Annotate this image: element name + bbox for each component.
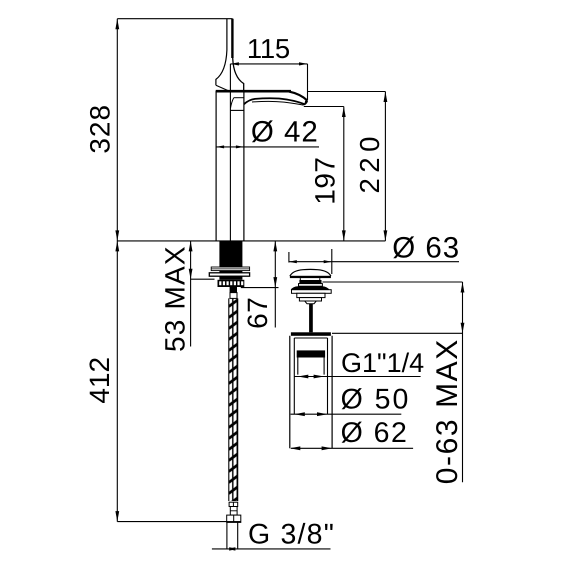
- drain ring 2: [299, 284, 323, 287]
- drain ring black: [299, 280, 321, 284]
- arrow dia62 right: [322, 446, 333, 450]
- spout channel left curve: [231, 98, 234, 109]
- svg-text:G 3/8": G 3/8": [248, 519, 335, 551]
- svg-text:328: 328: [85, 104, 116, 154]
- arrow dia50 left: [294, 412, 305, 416]
- svg-text:53 MAX: 53 MAX: [159, 245, 190, 352]
- spout top curve to tip: [289, 92, 307, 101]
- drain lock nut: [297, 293, 325, 297]
- dimension line 220 vertical: [384, 92, 386, 241]
- hose end nut: [227, 515, 241, 522]
- extension line bottom (412): [117, 521, 241, 523]
- arrow 0-63 top up: [461, 282, 465, 293]
- arrow 53max top up: [189, 241, 193, 252]
- arrow 220 bottom down: [384, 230, 388, 241]
- arrow 328 top up: [115, 19, 119, 30]
- dimension line diameter 63: [289, 261, 459, 263]
- arrow dia42 left: [216, 145, 224, 148]
- drain thread band: [297, 350, 325, 357]
- extension line diameter 63 left: [288, 252, 290, 263]
- leader line diameter 50: [291, 413, 402, 415]
- extension line 0-63 MAX top: [323, 281, 463, 283]
- svg-text:197: 197: [310, 156, 341, 204]
- spout beak tip: [303, 99, 308, 105]
- svg-text:Ø 50: Ø 50: [341, 384, 411, 416]
- leader line G 3/8: [212, 548, 331, 550]
- arrow 115 left: [230, 62, 239, 65]
- arrow 53max bottom down: [189, 269, 193, 280]
- spout channel top line: [234, 97, 244, 99]
- spout lip line: [252, 101, 304, 105]
- spout channel pocket bottom: [230, 109, 244, 111]
- drain cap rim: [290, 276, 331, 278]
- dimension line 0-63 MAX vertical: [462, 282, 464, 482]
- spout top bar: [216, 90, 291, 93]
- counter top line: [117, 240, 385, 242]
- arrow 197 bottom down: [342, 230, 346, 241]
- arrow 328 bottom down: [115, 230, 119, 241]
- arrow 197 top up: [342, 107, 346, 118]
- drain cap dome: [290, 269, 331, 276]
- extension line top (328): [117, 18, 232, 20]
- svg-text:115: 115: [247, 33, 290, 64]
- drain taper: [305, 301, 317, 304]
- braided hose: [227, 298, 241, 549]
- arrow 67 top up: [273, 241, 277, 252]
- arrow G38 right: [229, 547, 238, 550]
- svg-text:0-63 MAX: 0-63 MAX: [431, 338, 464, 484]
- arrows: [115, 19, 464, 551]
- arrow 115 right: [299, 62, 308, 65]
- svg-text:Ø 63: Ø 63: [392, 231, 460, 264]
- arrow dia42 right: [236, 145, 244, 148]
- extension line diameter 63 right: [331, 249, 333, 274]
- dimension line diameter 42: [216, 146, 319, 148]
- extension line 220 top: [308, 91, 386, 93]
- svg-text:67: 67: [242, 297, 273, 329]
- dimension line 197 vertical: [343, 107, 345, 241]
- arrow dia63 left: [289, 260, 297, 263]
- hose fitting lower: [230, 293, 237, 299]
- drain thread tube: [298, 358, 324, 375]
- drain ring 3: [299, 298, 321, 301]
- svg-text:Ø 42: Ø 42: [251, 115, 319, 148]
- drain body inner walls: [294, 338, 327, 414]
- spout underside: [244, 98, 305, 104]
- pop-up waste drain assembly: [290, 269, 332, 448]
- extension line 115 left / faucet centerline: [229, 64, 231, 241]
- faucet handle lever: [216, 19, 244, 92]
- svg-text:G1"1/4: G1"1/4: [341, 348, 424, 378]
- drain basin washer: [292, 290, 332, 294]
- arrow 412 top up: [115, 241, 119, 252]
- dimension line 53 MAX vertical: [190, 241, 192, 347]
- drain neck: [300, 278, 320, 280]
- extension line 53 MAX bottom: [191, 278, 215, 280]
- hose end neck: [230, 507, 237, 516]
- hose end collar: [229, 502, 238, 506]
- drain body outer: [290, 336, 332, 449]
- arrow G38 left: [227, 547, 236, 550]
- threaded shank below counter: [209, 241, 249, 299]
- dimension texts: [84, 33, 464, 550]
- svg-text:Ø 62: Ø 62: [341, 417, 409, 449]
- dimension line 67 vertical: [274, 241, 276, 328]
- mounting nut: [218, 280, 245, 287]
- arrow dia62 left: [290, 446, 301, 450]
- dimension line 328/412 vertical: [116, 19, 118, 522]
- arrow G1 1/4 left: [298, 375, 309, 379]
- body left edge: [215, 91, 217, 241]
- faucet body: [216, 91, 244, 241]
- extension line 197 top: [304, 106, 344, 108]
- drain rod: [309, 304, 313, 333]
- arrow 67 bottom down: [273, 277, 277, 288]
- washer plate 1: [211, 267, 249, 271]
- G3/8 tube: [226, 522, 228, 549]
- leader line G1 1/4: [294, 376, 421, 378]
- drain flange: [291, 286, 330, 290]
- arrow G1 1/4 right: [314, 375, 325, 379]
- drain body inner top: [294, 337, 327, 339]
- arrow dia63 right: [324, 260, 332, 263]
- svg-text:412: 412: [84, 357, 115, 404]
- extension line 115 right: [307, 64, 309, 100]
- leader line diameter 62 / body bottom: [291, 447, 413, 449]
- dimension line 115 horizontal: [230, 63, 307, 65]
- svg-text:220: 220: [354, 131, 385, 193]
- arrow 0-63 bottom down: [461, 323, 465, 334]
- arrow 220 top up: [384, 92, 388, 103]
- extension line 67 bottom: [241, 287, 279, 289]
- arrow 412 bottom down: [115, 511, 119, 522]
- spout: [216, 91, 308, 110]
- arrow dia50 right: [317, 412, 328, 416]
- extension line 0-63 MAX bottom: [332, 332, 463, 334]
- hose fitting upper: [230, 287, 237, 293]
- body right edge: [243, 92, 245, 240]
- washer plate 2: [209, 273, 249, 276]
- drain body top plate: [291, 332, 331, 336]
